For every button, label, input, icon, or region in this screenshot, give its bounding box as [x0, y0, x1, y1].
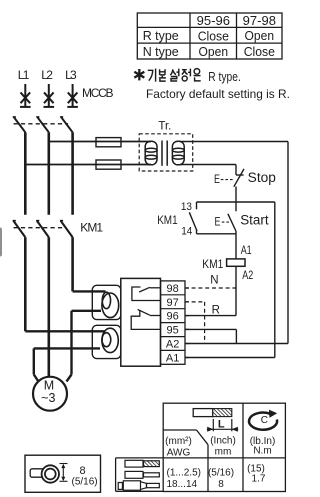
svg-text:~3: ~3 [41, 391, 55, 405]
svg-text:A1: A1 [166, 352, 179, 364]
svg-text:MCCB: MCCB [82, 86, 114, 100]
svg-text:R type: R type [143, 28, 179, 43]
svg-text:97: 97 [166, 297, 178, 309]
svg-text:N.m: N.m [253, 445, 271, 456]
svg-text:E: E [215, 217, 221, 229]
svg-text:95: 95 [166, 325, 178, 337]
svg-text:N: N [210, 275, 218, 287]
svg-text:(mm²): (mm²) [165, 436, 192, 447]
svg-text:KM1: KM1 [157, 215, 177, 227]
svg-text:Close: Close [198, 29, 229, 44]
svg-text:97-98: 97-98 [243, 13, 276, 28]
svg-text:(5/16): (5/16) [208, 467, 234, 478]
svg-text:98: 98 [166, 283, 178, 295]
svg-text:L2: L2 [41, 68, 53, 82]
svg-text:8: 8 [80, 465, 86, 477]
svg-text:95-96: 95-96 [197, 13, 230, 28]
svg-text:A2: A2 [242, 270, 253, 282]
svg-text:R type.: R type. [208, 69, 241, 84]
svg-text:13: 13 [181, 201, 192, 213]
svg-text:N type: N type [143, 44, 179, 59]
svg-text:Open: Open [245, 28, 275, 43]
svg-text:R: R [212, 304, 220, 316]
svg-text:18...14: 18...14 [167, 479, 198, 490]
svg-text:Close: Close [244, 44, 275, 59]
svg-text:(5/16): (5/16) [72, 476, 98, 487]
svg-text:Open: Open [199, 44, 229, 59]
svg-text:Tr.: Tr. [158, 119, 171, 133]
svg-text:mm: mm [215, 446, 232, 457]
svg-text:Start: Start [240, 213, 269, 228]
svg-text:AWG: AWG [167, 447, 191, 458]
svg-text:KM1: KM1 [202, 259, 223, 271]
svg-text:Stop: Stop [248, 170, 276, 185]
svg-text:(Inch): (Inch) [210, 436, 236, 447]
svg-text:(1...2.5): (1...2.5) [167, 467, 201, 478]
svg-text:14: 14 [181, 226, 192, 238]
svg-text:A2: A2 [166, 339, 179, 351]
svg-text:Factory default setting is R.: Factory default setting is R. [146, 87, 290, 101]
svg-text:96: 96 [166, 311, 178, 323]
svg-text:L: L [218, 419, 225, 431]
svg-text:A1: A1 [241, 245, 252, 257]
svg-text:L3: L3 [65, 68, 77, 82]
svg-text:L1: L1 [18, 68, 30, 82]
svg-text:E: E [214, 174, 220, 186]
svg-text:C: C [261, 415, 268, 426]
svg-text:KM1: KM1 [80, 220, 103, 234]
svg-text:8: 8 [218, 479, 224, 490]
svg-text:1.7: 1.7 [252, 473, 266, 484]
